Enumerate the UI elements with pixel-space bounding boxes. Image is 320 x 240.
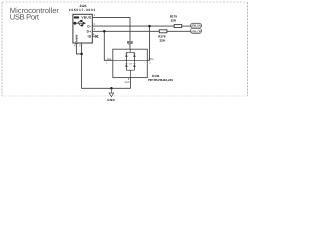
svg-text:GND: GND	[107, 98, 115, 102]
sheet border frame	[2, 2, 248, 96]
svg-text:USB Port: USB Port	[10, 12, 40, 21]
sheet background	[0, 0, 250, 106]
svg-text:I/O2: I/O2	[149, 58, 154, 61]
wire D- from R179 to label	[182, 25, 191, 27]
connector pin names	[81, 16, 91, 39]
sheet title text	[10, 6, 60, 21]
ESD diode upper-left	[125, 54, 127, 57]
ESD protection D136 body	[113, 49, 148, 77]
ESD diode lower-right	[133, 64, 135, 67]
connector pin numbers	[74, 14, 96, 47]
svg-text:VBUS: VBUS	[81, 16, 91, 20]
wire VBUS from pin 1 to ESD VBB pin	[92, 17, 130, 49]
wire D- from pin 2 to R179	[92, 25, 174, 27]
ESD diode lower-left	[125, 64, 127, 67]
ESD diode upper-right	[133, 54, 135, 57]
wire D+ from pin 3 to R178	[92, 30, 159, 32]
wire D+ branch down to ESD I/O1	[104, 31, 113, 60]
connector J124 body	[73, 14, 92, 43]
resistor R179	[174, 25, 182, 28]
svg-text:PRTR5V0U2X,215: PRTR5V0U2X,215	[148, 78, 174, 82]
svg-text:Shield: Shield	[74, 35, 78, 45]
no-connect X on ID pin	[95, 35, 98, 38]
junction D-	[148, 25, 151, 28]
wire D+ from R178 to label	[167, 30, 191, 32]
ground symbol	[109, 88, 114, 96]
ESD internal rails	[113, 49, 148, 77]
junction gnd net	[110, 87, 113, 90]
junction D+	[103, 30, 106, 33]
shield/gnd pin wires below connector	[76, 43, 130, 88]
junction shield/gnd	[80, 53, 83, 56]
net label USB_DP (lower pill)	[191, 28, 202, 33]
svg-text:22R: 22R	[171, 18, 177, 22]
svg-text:GND: GND	[124, 81, 129, 84]
wire D- branch down to ESD I/O2	[147, 26, 149, 60]
USB logo filled bar	[74, 16, 79, 18]
pin 4 ID stub	[92, 35, 97, 37]
USB trident logo	[74, 20, 85, 26]
svg-text:ID: ID	[88, 35, 92, 39]
svg-text:I/O1: I/O1	[107, 58, 112, 61]
svg-text:22R: 22R	[160, 38, 166, 42]
svg-text:105017-0001: 105017-0001	[69, 8, 96, 12]
svg-text:USB_DM: USB_DM	[191, 24, 202, 28]
svg-text:USB_DP: USB_DP	[191, 29, 201, 33]
net label USB_DM (upper pill)	[191, 23, 203, 28]
svg-text:D-: D-	[87, 24, 91, 28]
resistor R178	[159, 30, 167, 33]
svg-text:D+: D+	[87, 30, 92, 34]
